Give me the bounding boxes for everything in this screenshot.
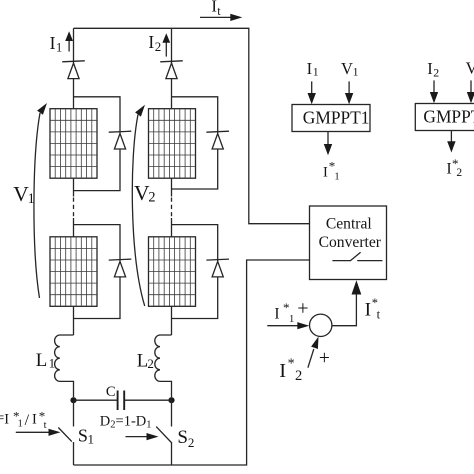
wire string2 top xyxy=(171,28,173,63)
svg-text:1: 1 xyxy=(49,356,56,371)
svg-text:C: C xyxy=(106,384,116,400)
svg-text:1: 1 xyxy=(289,313,295,325)
bypass diode DB2b xyxy=(206,259,229,277)
svg-text:I: I xyxy=(446,161,451,178)
wire below PV2b xyxy=(171,306,173,335)
svg-text:2: 2 xyxy=(456,167,462,179)
svg-text:1: 1 xyxy=(353,65,359,79)
wire xyxy=(171,218,173,237)
svg-text:I: I xyxy=(279,360,286,382)
svg-text:1: 1 xyxy=(28,191,35,207)
series dots string1 xyxy=(73,198,75,219)
inductor L1 xyxy=(55,335,74,397)
bypass diode branch string1 module a xyxy=(74,97,121,191)
svg-text:S: S xyxy=(177,427,188,448)
input arrow I*1 to summer xyxy=(267,322,309,329)
PV module PV2b xyxy=(149,237,196,306)
switch S2 xyxy=(156,400,172,465)
wire string1 top xyxy=(73,28,75,63)
svg-text:I: I xyxy=(50,33,56,53)
svg-text:S: S xyxy=(78,425,88,445)
svg-text:I: I xyxy=(365,300,371,321)
svg-text:L: L xyxy=(36,350,47,371)
central converter box xyxy=(310,206,387,280)
node junction dot right xyxy=(168,397,174,403)
output arrow I*2 from GMPPT2 xyxy=(447,131,455,153)
svg-text:t: t xyxy=(377,307,381,321)
control arrow S2 xyxy=(126,433,159,440)
svg-text:2: 2 xyxy=(148,190,155,206)
svg-text:D2=1-D1: D2=1-D1 xyxy=(100,413,152,430)
output arrowhead I*t xyxy=(352,280,362,294)
svg-text:+: + xyxy=(297,297,308,319)
output wire I*t to converter xyxy=(332,294,357,326)
wire below PV1a xyxy=(73,178,75,196)
svg-text:1: 1 xyxy=(313,65,319,79)
wire below PV1b xyxy=(73,306,75,335)
svg-text:t: t xyxy=(44,420,47,431)
PV module PV2a xyxy=(149,109,196,179)
converter switch glyph xyxy=(332,252,382,261)
GMPPT1 box xyxy=(292,105,370,132)
svg-text:2: 2 xyxy=(147,356,154,371)
input arrow I*2 to summer (diagonal) xyxy=(308,337,319,368)
PV module PV1a xyxy=(50,109,97,179)
bypass diode DB1a xyxy=(109,131,132,149)
current arrow I1 xyxy=(65,31,73,51)
summing junction circle xyxy=(310,314,332,336)
wire xyxy=(171,79,173,109)
diode D2 (blocking, string2) xyxy=(160,61,183,79)
input arrow I2 to GMPPT2 xyxy=(430,80,438,103)
input arrow V2 to GMPPT2 xyxy=(467,80,474,103)
bypass diode branch string2 module a xyxy=(172,97,218,189)
svg-text:V: V xyxy=(466,58,474,77)
svg-text:/: / xyxy=(25,412,30,429)
node junction dot left xyxy=(70,397,76,403)
svg-text:I: I xyxy=(307,59,313,78)
wire top bus xyxy=(74,28,310,223)
voltage arrow V2 xyxy=(132,105,145,306)
wire xyxy=(73,79,75,109)
inductor L2 xyxy=(155,335,172,397)
svg-text:*: * xyxy=(288,356,295,371)
svg-text:2: 2 xyxy=(188,435,195,450)
svg-text:I: I xyxy=(148,32,154,52)
wire bottom bus xyxy=(74,260,310,465)
svg-text:I: I xyxy=(427,59,433,78)
wire below PV2a xyxy=(171,178,173,196)
svg-text:1: 1 xyxy=(18,419,23,430)
series dots string2 xyxy=(171,198,173,219)
output arrow I*1 from GMPPT1 xyxy=(324,132,332,156)
current arrow I2 xyxy=(162,33,170,56)
svg-text:I: I xyxy=(274,306,279,323)
svg-text:2: 2 xyxy=(295,368,302,384)
GMPPT2 box xyxy=(415,104,474,131)
capacitor C wires xyxy=(74,399,172,401)
capacitor C plates xyxy=(118,391,125,411)
svg-text:Converter: Converter xyxy=(319,234,382,251)
svg-text:2: 2 xyxy=(155,39,162,54)
current arrow It xyxy=(200,14,242,21)
svg-text:I: I xyxy=(211,0,217,16)
svg-text:GMPPT2: GMPPT2 xyxy=(423,106,474,126)
control arrow S1 xyxy=(16,429,61,436)
svg-text:I: I xyxy=(4,412,9,428)
svg-text:2: 2 xyxy=(433,65,439,79)
bypass diode branch string1 module b xyxy=(74,225,121,319)
svg-text:1: 1 xyxy=(88,431,95,446)
svg-text:I: I xyxy=(323,165,328,181)
diode D1 (blocking, string1) xyxy=(62,61,85,79)
svg-text:GMPPT1: GMPPT1 xyxy=(303,107,370,127)
PV module PV1b xyxy=(50,237,97,306)
svg-text:Central: Central xyxy=(326,215,373,232)
bypass diode DB2a xyxy=(206,131,229,149)
svg-text:I: I xyxy=(32,412,37,428)
input arrow V1 to GMPPT1 xyxy=(345,81,353,104)
svg-text:1: 1 xyxy=(334,171,339,182)
svg-text:V: V xyxy=(341,59,353,78)
switch S1 xyxy=(58,400,73,465)
svg-text:+: + xyxy=(319,348,330,369)
bypass diode DB1b xyxy=(109,259,132,277)
bypass diode branch string2 module b xyxy=(172,225,218,319)
input arrow I1 to GMPPT1 xyxy=(308,81,316,104)
wire xyxy=(73,218,75,237)
svg-text:1: 1 xyxy=(56,41,62,55)
voltage arrow V1 xyxy=(34,103,47,298)
svg-text:t: t xyxy=(217,4,221,18)
